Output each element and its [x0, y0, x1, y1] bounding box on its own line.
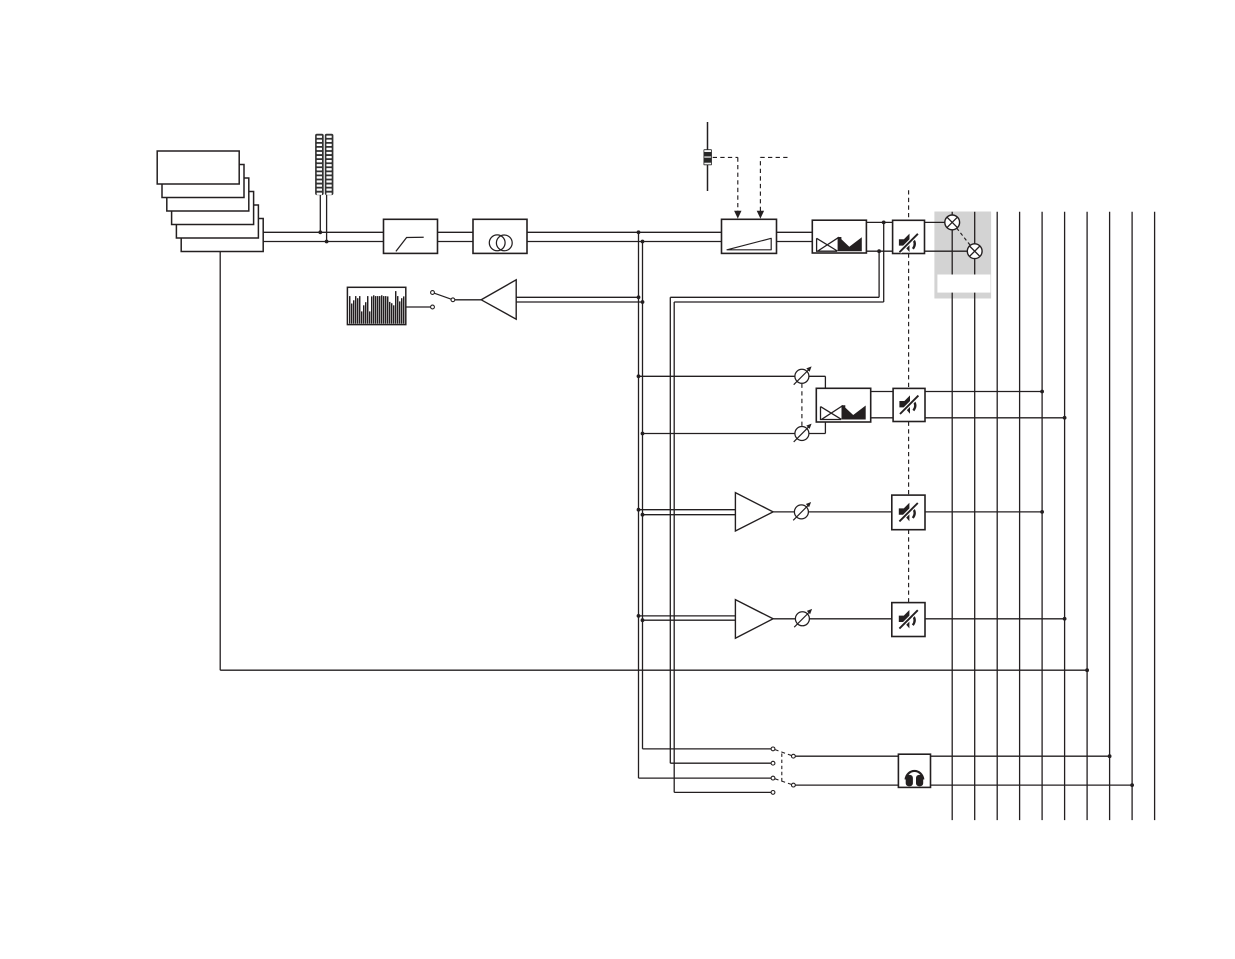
junction mix-b R bus — [1063, 416, 1067, 420]
wire mix-b feed 2 — [643, 422, 826, 434]
junction direct-out bus — [1085, 668, 1089, 672]
wire pan L tap — [674, 222, 884, 302]
wire aux1 pot to mute — [808, 511, 892, 513]
fader control — [704, 122, 712, 191]
wire solo stub 4 — [674, 791, 771, 793]
wire drop vertical A — [638, 232, 640, 778]
aux2 level pot — [794, 609, 812, 627]
noise switch — [406, 291, 481, 309]
wire phones out top — [931, 755, 1110, 757]
junction aux1 top — [637, 508, 641, 512]
wire mute to R node — [925, 250, 968, 252]
bus 4 — [1064, 212, 1066, 820]
aux2 amp — [735, 600, 773, 639]
junction aux2 bottom — [641, 618, 645, 622]
mix-b level pot 2 — [794, 424, 812, 442]
junction pan R tap — [877, 249, 881, 253]
bus 6 — [1109, 212, 1111, 820]
bus 8 — [1154, 212, 1156, 820]
junction mix-b 1 — [637, 374, 641, 378]
mix-b level pot 1 — [794, 366, 812, 384]
wire aux2 pot to mute — [809, 618, 892, 620]
wire mix-b pan to mute top — [871, 391, 893, 393]
junction aux2 top — [637, 614, 641, 618]
junction drop B — [641, 240, 645, 244]
L mix node — [945, 215, 960, 230]
fader gain box — [722, 219, 777, 253]
junction connector lead 1 — [318, 230, 322, 234]
wire solo stub 1 — [643, 748, 772, 750]
wire main pair bottom — [258, 241, 812, 243]
wire mute to L node — [925, 221, 946, 223]
shaded L/R assign region — [934, 212, 991, 299]
junction mix-b 2 — [641, 432, 645, 436]
wire aux2 out — [925, 618, 1065, 620]
aux1 mute box — [892, 495, 925, 530]
junction phones R bus — [1130, 783, 1134, 787]
junction connector lead 2 — [325, 240, 329, 244]
aux2 mute box — [892, 603, 925, 637]
bus 3 — [1041, 212, 1043, 820]
wire aux1 feed pair — [639, 510, 736, 515]
junction aux2 bus — [1063, 617, 1067, 621]
bus 1 — [996, 212, 998, 820]
mix-b mute box — [893, 388, 925, 421]
wire pan out L — [866, 221, 892, 223]
stacked channel blocks — [157, 151, 263, 252]
wire mix-b feed 1 — [639, 376, 826, 388]
junction CR bottom — [641, 300, 645, 304]
junction CR top — [637, 295, 641, 299]
wire pan out R — [866, 250, 892, 252]
pot gang dashed link — [801, 384, 803, 427]
wire mix-b out R — [925, 417, 1065, 419]
wire connector lead 2 — [326, 194, 328, 242]
low-cut filter box — [384, 219, 438, 253]
wire aux2 feed pair — [639, 616, 736, 620]
junction phones L bus — [1108, 754, 1112, 758]
bus 5 — [1086, 212, 1088, 820]
phones amp box — [898, 754, 930, 787]
wire switch to phones top — [795, 755, 898, 757]
junction pan L tap — [882, 221, 886, 225]
wire main pair top — [258, 231, 812, 233]
wire aux2 amp to pot — [773, 618, 796, 620]
channel mute box — [893, 220, 925, 253]
wire phones out bottom — [931, 784, 1133, 786]
bus R node column — [974, 212, 976, 820]
channel connector strip — [315, 134, 333, 195]
wire aux1 out — [925, 511, 1042, 513]
junction mix-b L bus — [1040, 390, 1044, 394]
junction drop A — [637, 230, 641, 234]
wire drop vertical B — [642, 242, 644, 749]
node link dashed — [957, 228, 971, 245]
transformer box — [473, 219, 527, 253]
wire mix-b pan to mute bottom — [871, 417, 893, 419]
oscillator/noise box — [347, 287, 405, 324]
R mix node — [967, 244, 982, 259]
bus 7 — [1131, 212, 1133, 820]
wire solo stub 3 — [639, 777, 772, 779]
wire stack drop vertical — [219, 250, 221, 670]
wire mix-b out L — [925, 391, 1042, 393]
bus label box — [937, 275, 990, 293]
wire aux1 amp to pot — [773, 511, 795, 513]
fader dashed control lines with arrows — [713, 157, 791, 218]
wire CR amp pair top — [516, 296, 638, 298]
mute dashed control line — [908, 190, 910, 602]
channel pan box — [812, 220, 866, 253]
control-room amp — [481, 280, 516, 319]
bus 2 — [1019, 212, 1021, 820]
junction aux1 bottom — [641, 513, 645, 517]
wire pan R tap — [670, 251, 879, 297]
wire connector lead 1 — [319, 194, 321, 232]
bus L node column — [951, 212, 953, 820]
mix-b pan box — [816, 388, 870, 422]
wire post-pan drop vertical D — [673, 302, 675, 792]
aux1 amp — [735, 493, 773, 531]
junction aux1 bus — [1040, 510, 1044, 514]
wire switch to phones bottom — [795, 784, 898, 786]
aux1 level pot — [793, 502, 811, 520]
wire direct-out run to bus 7 — [220, 669, 1087, 671]
wire solo stub 2 — [670, 762, 771, 764]
solo/phones source switch — [771, 747, 795, 794]
wire post-pan drop vertical C — [669, 297, 671, 763]
wire CR amp pair bottom — [516, 301, 642, 303]
